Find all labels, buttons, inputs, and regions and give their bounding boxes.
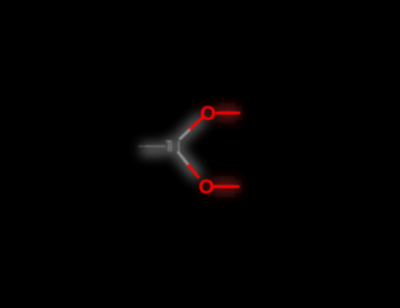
wire: O-CH3 upper bond	[217, 112, 240, 115]
wire: O-CH3 lower bond	[214, 185, 239, 188]
svg-text:O: O	[200, 103, 216, 125]
wire: Al-O lower bond, O half	[188, 165, 198, 177]
wire: Al-O upper bond, Al half	[179, 129, 190, 140]
atom Al (label strokes)	[166, 141, 179, 152]
jpeg halo around structure	[141, 103, 240, 199]
wire: Al-O lower bond, Al half	[178, 152, 189, 166]
svg-text:O: O	[199, 177, 215, 199]
wire: Al-O upper bond, O half	[190, 118, 202, 129]
wire: C-Al bond (left methyl)	[139, 145, 147, 147]
